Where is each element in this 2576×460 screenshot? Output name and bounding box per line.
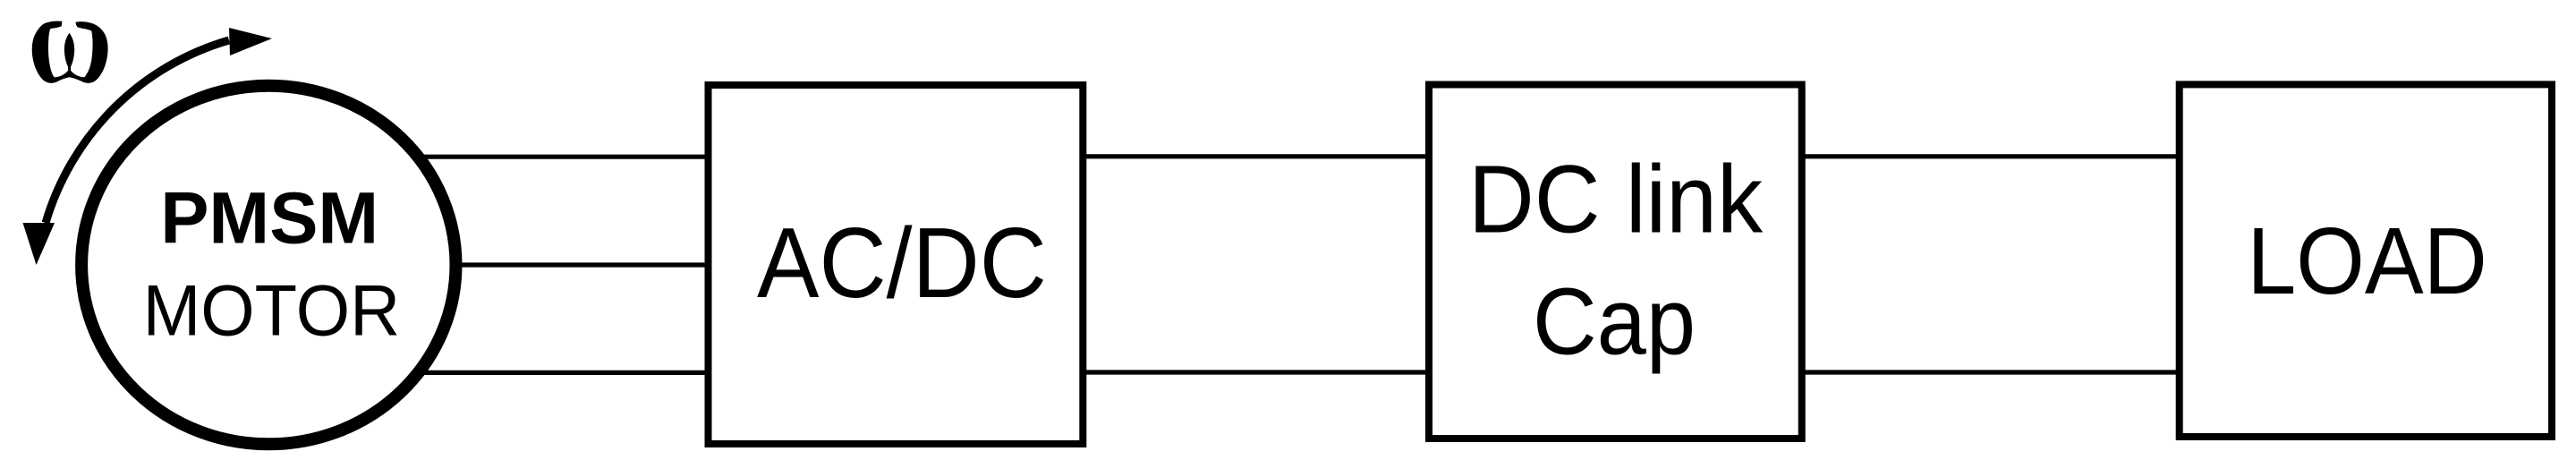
wire DC+ (AC/DC to DC link Cap): [1086, 154, 1425, 158]
LOAD box: [2180, 84, 2552, 437]
DC link capacitor box: [1429, 85, 1802, 439]
rotation arrowhead down: [23, 223, 55, 265]
wire phase A (motor to AC/DC): [385, 155, 705, 159]
omega speed label: [32, 21, 108, 83]
wire phase C (motor to AC/DC): [385, 371, 705, 375]
svg-text:LOAD: LOAD: [2247, 209, 2487, 314]
svg-text:AC/DC: AC/DC: [757, 208, 1047, 319]
rotation arrow arc: [46, 40, 229, 223]
wire DC- (DC link Cap to LOAD): [1805, 370, 2176, 374]
AC/DC converter box: [709, 85, 1084, 444]
svg-text:Cap: Cap: [1533, 268, 1696, 374]
PMSM motor circle: [81, 86, 455, 445]
rotation arrowhead right: [229, 28, 272, 55]
wire DC+ (DC link Cap to LOAD): [1805, 154, 2176, 158]
svg-text:DC link: DC link: [1468, 145, 1763, 252]
wire phase B (motor to AC/DC): [385, 262, 705, 267]
svg-text:MOTOR: MOTOR: [143, 270, 401, 351]
wire DC- (AC/DC to DC link Cap): [1086, 370, 1425, 374]
svg-text:PMSM: PMSM: [160, 177, 378, 259]
